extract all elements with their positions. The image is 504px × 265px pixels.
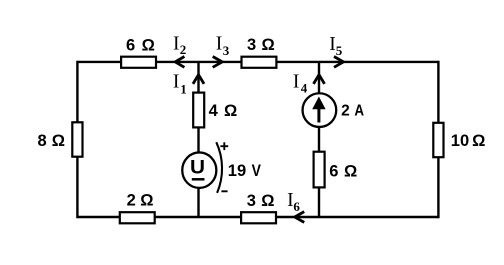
voltage source U underline — [192, 178, 205, 181]
svg-text:2: 2 — [180, 42, 187, 57]
plus sign — [220, 142, 228, 150]
wire bottom — [77, 216, 438, 218]
arrow I5 (right) — [334, 57, 343, 68]
arrow I6 (left) — [295, 212, 305, 223]
svg-text:Ω: Ω — [261, 192, 274, 210]
resistor 8 ohm left — [72, 122, 82, 156]
current source arrow — [312, 97, 325, 123]
wire right — [437, 61, 439, 218]
wire left — [76, 61, 78, 218]
svg-text:10: 10 — [451, 132, 469, 150]
voltage source circle — [182, 152, 216, 188]
svg-text:I: I — [216, 34, 223, 55]
svg-text:I: I — [173, 34, 180, 55]
svg-text:A: A — [354, 103, 364, 120]
svg-text:V: V — [252, 162, 261, 180]
svg-text:19: 19 — [228, 162, 246, 180]
svg-text:Ω: Ω — [344, 163, 357, 181]
arrow I3 (right) — [213, 57, 223, 68]
svg-text:2: 2 — [127, 191, 136, 209]
svg-text:Ω: Ω — [472, 132, 485, 150]
svg-text:8: 8 — [38, 132, 47, 150]
svg-text:3: 3 — [247, 36, 256, 54]
svg-text:I: I — [173, 72, 180, 93]
svg-text:Ω: Ω — [140, 191, 153, 209]
svg-text:1: 1 — [180, 82, 187, 97]
resistor 6 ohm top — [121, 57, 156, 68]
arrow I1 (up) — [193, 75, 204, 84]
wire current-source branch — [318, 62, 320, 217]
svg-text:3: 3 — [223, 43, 230, 58]
svg-text:U: U — [190, 158, 205, 179]
svg-text:4: 4 — [209, 102, 219, 120]
wire top — [77, 61, 438, 63]
svg-text:4: 4 — [301, 80, 308, 95]
svg-text:2: 2 — [341, 103, 350, 120]
svg-text:I: I — [293, 71, 300, 92]
resistor 2 ohm bottom — [120, 212, 155, 223]
resistor 10 ohm right — [433, 123, 443, 157]
resistor 6 ohm vertical — [314, 152, 325, 188]
svg-text:6: 6 — [126, 37, 135, 55]
svg-text:6: 6 — [293, 199, 300, 214]
voltage source polarity arc — [216, 142, 222, 193]
svg-text:6: 6 — [329, 163, 338, 181]
svg-text:Ω: Ω — [52, 132, 65, 150]
svg-text:3: 3 — [247, 192, 256, 210]
wire middle branch — [197, 62, 199, 217]
arrow I4 (up) — [314, 75, 325, 84]
current source circle — [303, 93, 337, 127]
svg-text:Ω: Ω — [262, 36, 275, 54]
arrow I2 (left) — [175, 57, 184, 68]
resistor 3 ohm top — [242, 57, 277, 68]
resistor 3 ohm bottom — [241, 212, 276, 223]
resistor 4 ohm middle — [193, 93, 204, 128]
svg-text:5: 5 — [336, 43, 343, 58]
svg-text:Ω: Ω — [142, 37, 155, 55]
minus sign — [221, 190, 227, 192]
svg-text:Ω: Ω — [224, 102, 237, 120]
